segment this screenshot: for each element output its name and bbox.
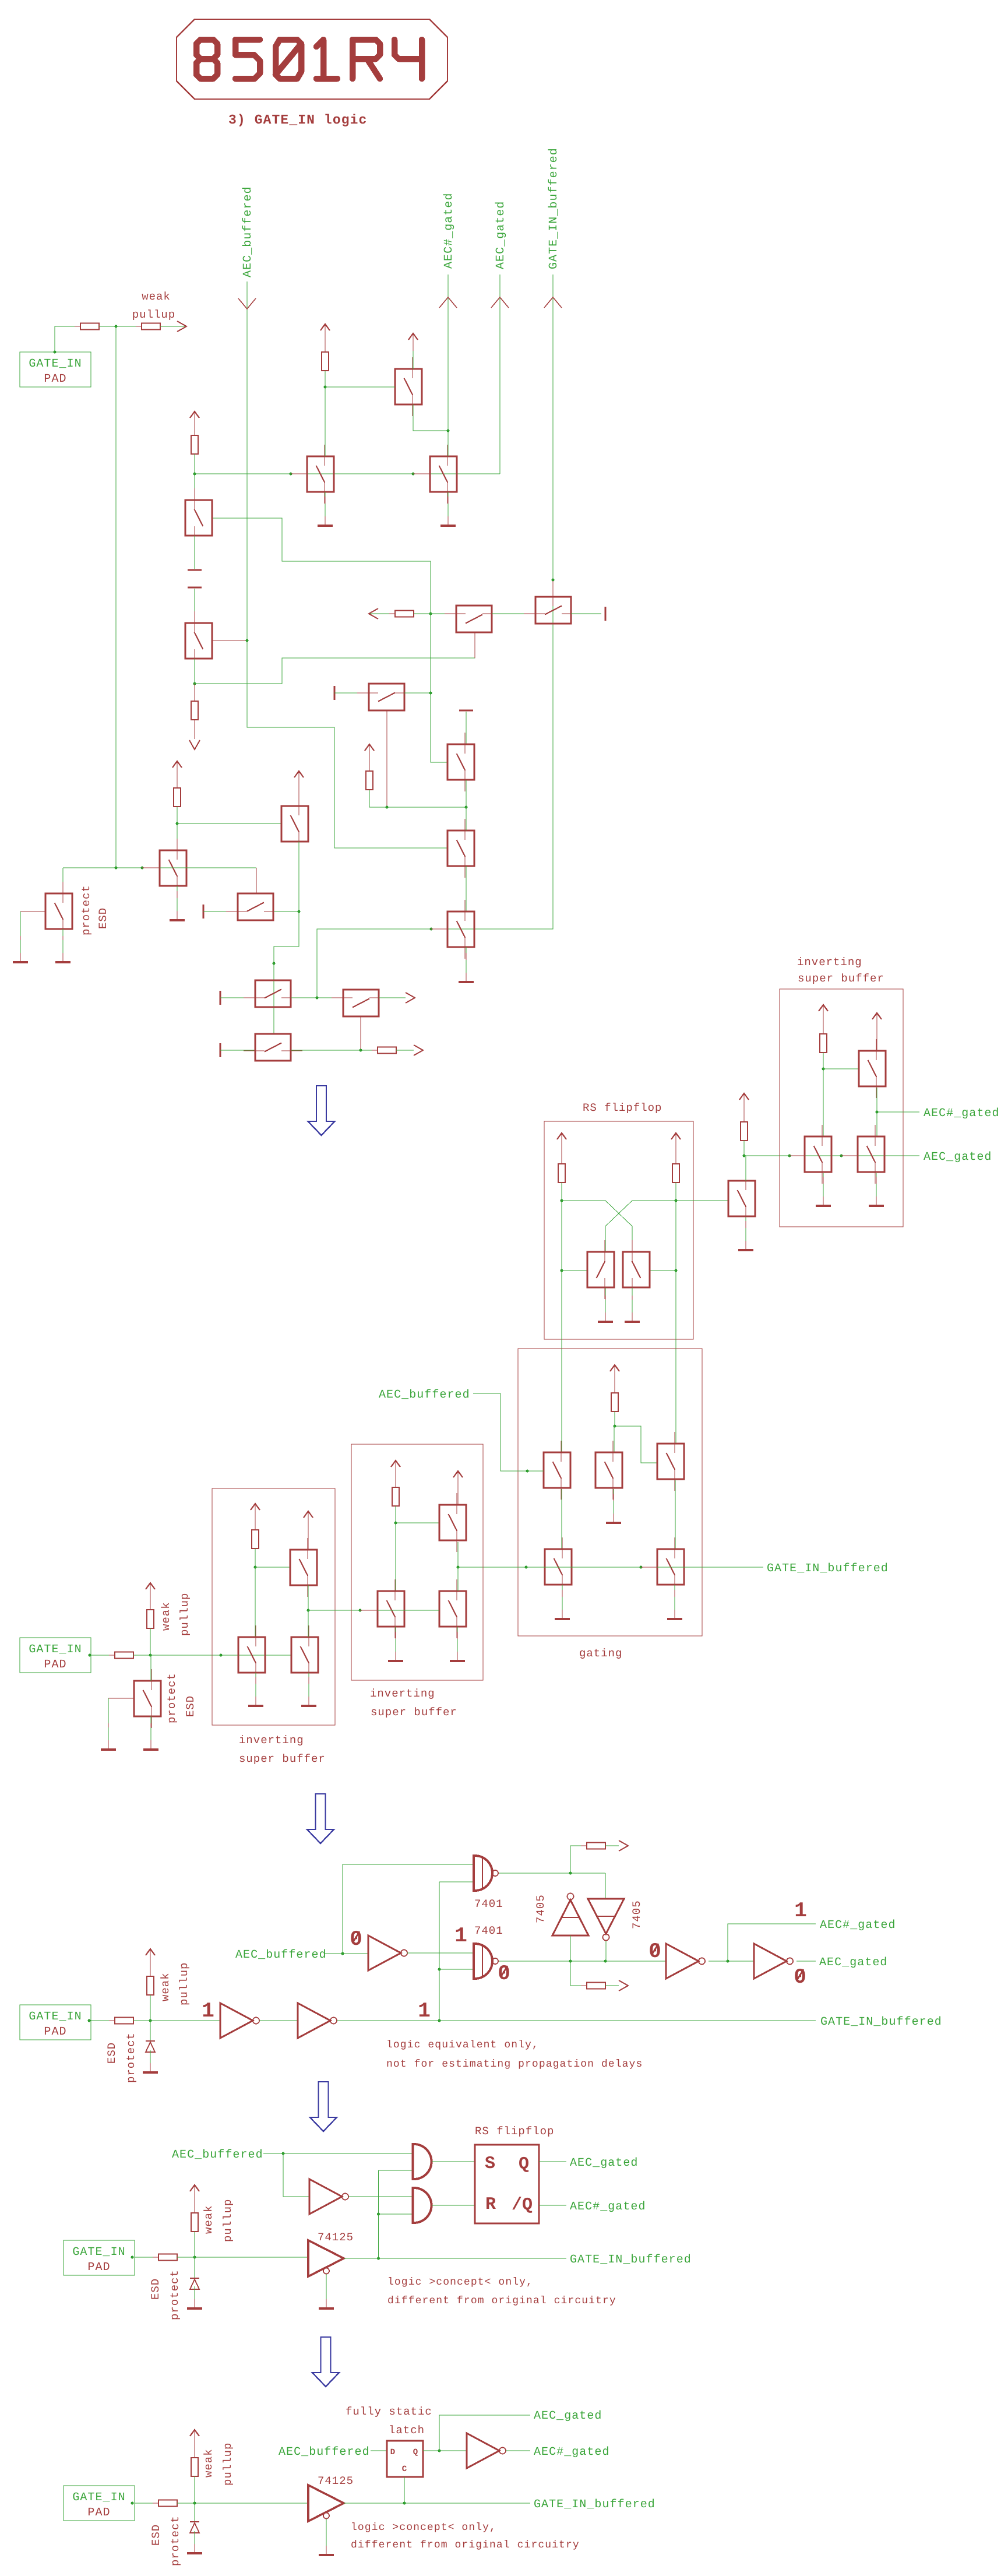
wire GATE_IN_buffered row s3 [337,2020,816,2021]
wire U bottom [308,1585,309,1610]
ground ESD1 [55,936,71,962]
wire U gate [255,1567,290,1568]
diode ESD s4 [190,2278,199,2289]
wire ESD1 bottom [62,929,64,955]
wire row1053d [571,613,601,614]
transistor Z [439,1579,466,1638]
wire /Q out s4 [539,2205,566,2206]
svg-text:GATE_IN: GATE_IN [72,2491,125,2504]
wire H2 bottom [632,1288,633,1312]
wire K1 bottom [876,1088,877,1136]
junction AEC# tap [727,1960,729,1963]
wire pad row s5b [177,2503,308,2504]
junction rail 558 [324,386,327,389]
wire AEC_buffered s3 [324,1953,368,1954]
wire W bottom [308,1673,309,1697]
svg-text:AEC#_gated: AEC#_gated [570,2200,646,2213]
svg-text:logic >concept< only,: logic >concept< only, [387,2276,533,2288]
svg-text:C: C [402,2465,407,2474]
resistor pullup s3 [147,1970,154,2001]
wire to NAND1 in1 [343,1864,474,1954]
wire ESD2 top [150,1655,151,1681]
wire K1 top [876,1030,877,1051]
wire F4 bottom [466,947,467,972]
svg-text:1: 1 [794,1899,807,1923]
junction isb3 gate node [822,1068,825,1071]
wire AEC_gated row s2 [744,1155,919,1156]
ground 74125 s4 [319,2286,334,2308]
power arrow A4 [294,771,304,789]
svg-text:7401: 7401 [474,1898,503,1910]
wire NAND1 in2 [439,1881,474,1882]
power arrow Y [453,1471,463,1488]
wire AEC_buffered s5 [371,2450,387,2451]
transistor H2 [623,1240,650,1299]
junction E gate [290,473,292,476]
wire RS left rail [561,1183,562,1452]
out-arrow row1053 [369,608,378,619]
svg-text:protect: protect [80,885,93,935]
wire 7405 down output [605,1941,607,1961]
wire row1053c [492,613,535,614]
power arrow RS right [671,1133,681,1150]
wire node to HE gate [274,912,299,963]
inverter 7405 up-pointing [552,1894,588,1936]
junction pullup s4 [193,2256,196,2259]
RS flipflop group box s2 [544,1121,693,1339]
wire esd diode s5a [194,2503,195,2522]
wire pullup s2b [150,1628,151,1655]
wire AND1 in2 [379,2170,413,2171]
wire AEC# tap [728,1924,816,1961]
resistor isb3 [820,1028,827,1058]
wire F gate red [413,473,430,474]
transistor ESD2 [134,1669,161,1728]
svg-text:AEC#_gated: AEC#_gated [534,2445,610,2459]
wire I1 top [745,1156,746,1181]
ground G2 [606,1494,621,1523]
wire G1 to G4 [561,1489,562,1549]
ground A3 [170,891,185,920]
wire HE HF gate vertical [273,963,274,1034]
svg-text:protect: protect [165,1673,178,1723]
wire H1 gate [562,1270,587,1271]
junction AEC_buffered s4 [282,2152,285,2155]
GATE_IN PAD s5 [64,2486,135,2521]
power arrow pullup s5 [190,2430,199,2447]
wire isb3 rail [823,1053,824,1136]
svg-text:GATE_IN_buffered: GATE_IN_buffered [820,2015,942,2029]
svg-text:D: D [390,2448,395,2457]
transistor W [291,1625,318,1684]
junction A2 gate on AEC_buffered [246,639,249,642]
resistor pullup s2 [147,1604,154,1634]
svg-text:inverting: inverting [239,1734,304,1747]
wire row1189b [404,692,431,694]
junction rail 1277 [743,1155,746,1157]
transistor Y [439,1493,466,1552]
resistor pullup A1 [191,430,198,460]
wire pad row s2a [91,1655,115,1656]
svg-text:74125: 74125 [318,2475,354,2487]
svg-text:0: 0 [794,1965,806,1989]
wire gate T1 [325,386,395,388]
wire gating to G3 gate [615,1426,657,1463]
transistor HD [226,893,285,920]
svg-text:PAD: PAD [44,2025,66,2039]
wire 7405 up input [570,1935,571,1961]
wire J1 bottom [823,1173,824,1196]
wire pullup s5b [194,2476,195,2503]
svg-text:GATE_IN: GATE_IN [29,1643,82,1656]
svg-text:AEC_gated: AEC_gated [819,1956,887,1969]
junction AEC#_gated node [876,1111,879,1114]
resistor rail 304 [174,782,181,812]
resistor series s1 [75,323,105,330]
ground 74125 s5 [319,2533,334,2555]
svg-text:ESD: ESD [97,907,110,929]
wire pullup s3b [150,1995,151,2021]
wire AEC#_gated out s2 [877,1111,919,1113]
svg-text:0: 0 [648,1940,661,1963]
svg-text:AEC_gated: AEC_gated [534,2409,602,2423]
terminal bar HD [203,905,205,919]
wire isb2 mid row [378,1610,439,1611]
transistor F4 [447,900,474,959]
terminal bar row1189 [334,686,336,700]
wire rail 558a [325,342,326,352]
inverter B0 s3 [368,1935,407,1970]
terminal bar F2 top [459,710,473,712]
inverter 7405 down-pointing [588,1899,624,1941]
svg-text:74125: 74125 [318,2231,354,2244]
terminal bar row1053 [605,607,607,621]
wire to I5 [283,2153,309,2197]
wire HF left [220,1050,255,1051]
wire NAND x754 [439,1882,440,2021]
svg-text:fully static: fully static [346,2405,432,2418]
wire AEC_gated tap s5 [439,2415,530,2451]
wire AND2 in2 [379,2213,413,2215]
title block octagon frame [177,19,447,99]
resistor series s4 [153,2254,183,2261]
wire X gate red [360,1610,378,1611]
svg-text:S: S [485,2154,495,2174]
resistor gating [611,1387,618,1417]
junction A4 HD [298,910,301,913]
wire HC gate [386,710,387,807]
wire HE left [220,997,255,998]
junction x739 y1190 [429,692,432,695]
power arrow rail 634 [365,744,374,762]
wire G5 bottom [674,1585,675,1610]
AND gate R [413,2188,432,2223]
wire X bottom [395,1627,396,1652]
wire gating rail b [614,1412,615,1426]
wire RS right a [675,1150,676,1164]
transistor A3 [160,839,186,898]
svg-text:protect: protect [169,2515,182,2566]
out-arrow latch top [619,1840,628,1851]
ground diode s4 [187,2286,202,2308]
wire RS cross left [562,1201,632,1252]
junction AEC_buffered s3 [341,1952,344,1955]
svg-text:super buffer: super buffer [798,972,884,985]
GATE_IN PAD s3 [20,2005,91,2040]
out-arrow pulldown [189,740,200,749]
AND gate S [413,2144,432,2179]
wire AND1 to S [432,2161,475,2162]
inverter B2 s3 [298,2003,337,2038]
NAND gate 7401 lower [474,1944,498,1979]
transistor HF [244,1034,302,1061]
out-arrow HB2 [406,993,415,1003]
resistor rail 634 [366,765,373,796]
junction pullup s3 [149,2019,152,2022]
junction G1 gate [526,1470,529,1473]
wire Y bottom [457,1542,459,1567]
resistor series s5 [153,2500,183,2507]
power arrow pullup s4 [190,2185,199,2202]
junction HB2 gate row1802 [360,1049,362,1052]
wire latch C s5 [404,2477,405,2503]
power arrow rail 1277 [739,1093,749,1111]
latch block s5 [387,2441,423,2477]
wire HB gate [552,580,554,597]
wire pad row s2b [133,1655,291,1656]
junction pullup node s1 [115,325,118,328]
svg-text:7405: 7405 [534,1894,547,1923]
diode ESD s3 [146,2041,155,2052]
resistor row1802 [372,1047,402,1054]
wire G3 to G5 [675,1480,676,1549]
wire row s1a [99,326,142,327]
flow arrow 4 [312,2337,339,2387]
ground E [318,497,333,526]
wire rail 1277b [743,1141,745,1156]
wire A2 gate [212,640,247,641]
wire latch bottom out [605,1985,619,1986]
transistor J1 [805,1125,831,1184]
wire isb1 rail a [255,1521,256,1530]
wire C2 out [796,1961,816,1962]
wire ESD2 gate gnd [108,1698,109,1742]
svg-text:different from original circui: different from original circuitry [351,2539,580,2551]
transistor G4 [545,1537,572,1596]
junction rail 304 [176,822,179,825]
svg-text:weak: weak [202,2448,215,2478]
wire pad row s4a [135,2257,158,2258]
wire T1 top [413,351,414,369]
inverter C1 s3 [666,1944,705,1979]
transistor X [378,1579,404,1638]
junction latch C s5 [403,2502,406,2505]
svg-text:logic equivalent only,: logic equivalent only, [386,2039,539,2051]
ground diode s5 [187,2531,202,2553]
terminal bar HF [220,1043,221,1057]
transistor I1 [728,1169,755,1228]
wire isb2 rail a [395,1478,396,1487]
svg-text:0: 0 [498,1962,510,1986]
inverter B1 s3 [220,2003,259,2038]
wire node to HA gate [195,632,475,684]
inverter C2 s3 [754,1944,793,1979]
power arrow rail 558 [320,324,330,342]
wire G2 bottom [613,1489,614,1513]
transistor T1 [395,357,422,416]
svg-text:Q: Q [413,2448,418,2457]
svg-text:GATE_IN_buffered: GATE_IN_buffered [767,1562,889,1575]
svg-text:weak: weak [142,290,171,303]
wire row y1489 [63,867,256,868]
wire row1489 to ESD top [62,868,64,893]
wire esd diode s3b [150,2052,151,2065]
junction gate row y813 [193,473,196,476]
wire gating rail a [614,1382,615,1393]
wire 74125 enable s5 [326,2519,327,2547]
junction J1 gate [788,1155,791,1157]
transistor E [307,445,334,504]
wire pad row s3b [133,2020,220,2021]
junction RS left gate [561,1269,563,1272]
wire latch bottom pullup [570,1961,587,1986]
junction pad pin s1 [54,351,57,354]
transistor HE [244,980,302,1007]
wire pad to pullup row s1 [55,326,80,352]
transistor ESD1 [45,882,72,941]
svg-text:ESD: ESD [184,1695,197,1717]
wire rail 304b [177,807,178,850]
junction latch bottom 2 [604,1960,607,1963]
ground J1 [816,1177,831,1206]
svg-text:RS flipflop: RS flipflop [475,2125,554,2138]
svg-text:AEC_buffered: AEC_buffered [379,1388,470,1402]
svg-text:pullup: pullup [178,1962,191,2005]
junction pad pin s2 [89,1654,91,1657]
wire gate row y813 [195,473,500,474]
GATE_IN PAD s2 [20,1638,91,1673]
wire esd diode s4a [194,2257,195,2278]
RS flipflop block s4 [475,2145,539,2223]
svg-text:GATE_IN_buffered: GATE_IN_buffered [547,147,561,269]
junction pullup s2 [149,1654,152,1657]
wire NAND2 in2 [439,1969,474,1970]
svg-text:AEC#_gated: AEC#_gated [820,1919,896,1932]
logo text 8501R4 [196,40,422,79]
wire E bottom [325,492,326,515]
resistor pulldown [191,695,198,726]
ground I1 [738,1221,753,1250]
junction pulldown node [193,682,196,685]
svg-text:inverting: inverting [370,1687,435,1700]
svg-text:0: 0 [350,1927,362,1951]
wire B0 out [407,1952,474,1954]
resistor rail 558 [322,346,329,376]
flow arrow 2 [307,1794,334,1843]
wire RS out to I1 [676,1200,728,1201]
wire Z top [457,1567,459,1591]
ground ESD1 gate [13,936,28,962]
wire T1 bottom [413,404,448,431]
wire pullup s2a [150,1600,151,1610]
transistor HA [445,606,503,632]
power arrow K1 [872,1013,882,1030]
transistor F [430,445,457,504]
wire row1802 out [396,1050,414,1051]
transistor A1 [185,488,212,547]
svg-text:AEC#_gated: AEC#_gated [924,1107,1000,1120]
power arrow RS left [557,1133,566,1150]
wire K1 gate [823,1068,859,1069]
wire pad row s5a [135,2503,158,2504]
svg-text:Q: Q [519,2155,529,2174]
junction HB gate on GIB [552,579,555,582]
junction pad pin s3 [88,2019,91,2022]
wire pullup s3a [150,1966,151,1976]
svg-text:PAD: PAD [44,1658,66,1671]
wire 74125 enable s4 [326,2274,327,2301]
svg-text:AEC_buffered: AEC_buffered [172,2148,263,2162]
wire HD left [203,911,238,912]
svg-text:protect: protect [168,2269,181,2320]
junction GIB row1712 [316,997,319,1000]
junction HE gate [273,962,276,965]
wire H2 gate [650,1270,676,1271]
wire F bottom [447,492,449,515]
svg-text:ESD: ESD [149,2278,162,2300]
svg-text:ESD: ESD [150,2524,163,2546]
junction x739 y1055 [429,613,432,615]
wire U top [308,1529,309,1550]
resistor latch bottom [581,1983,611,1989]
wire HE right [291,997,343,998]
ground Z [450,1632,465,1661]
junction isb2 node [394,1522,397,1525]
wire isb1 rail b [255,1549,256,1637]
wire A3 gate red [142,867,160,868]
wire A1 bottom to cap [194,536,195,569]
wire A2 bottom [194,659,195,684]
svg-text:AEC_gated: AEC_gated [924,1150,992,1164]
svg-text:AEC_buffered: AEC_buffered [279,2445,370,2459]
diode ESD s5 [190,2522,199,2533]
junction G5 gate [640,1566,643,1569]
svg-text:super buffer: super buffer [371,1706,457,1719]
svg-text:latch: latch [389,2424,425,2437]
net out-arrow AEC_gated s1 [491,297,509,308]
resistor isb1 [252,1524,259,1554]
svg-text:weak: weak [160,1602,172,1631]
wire B1 to B2 [259,2020,298,2021]
transistor G1 [544,1441,570,1500]
wire G4 bottom [562,1585,563,1610]
junction pad pin s5 [131,2502,134,2505]
wire pad row s3a [91,2020,115,2021]
wire F3 top [466,807,467,830]
wire to 7405 down input [605,1873,606,1899]
wire pad row s4b [177,2257,308,2258]
wire isb1 mid row [308,1610,378,1611]
ground G5 [667,1590,682,1619]
junction G4 gate [525,1566,528,1569]
wire RS cross right [605,1201,676,1252]
wire A1 gate row [213,518,447,762]
wire HB2 gate [360,1016,361,1050]
wire cap to A2 top [194,589,195,623]
wire rail 1277a [743,1111,745,1122]
svg-text:PAD: PAD [87,2506,110,2519]
svg-text:logic >concept< only,: logic >concept< only, [351,2522,496,2533]
